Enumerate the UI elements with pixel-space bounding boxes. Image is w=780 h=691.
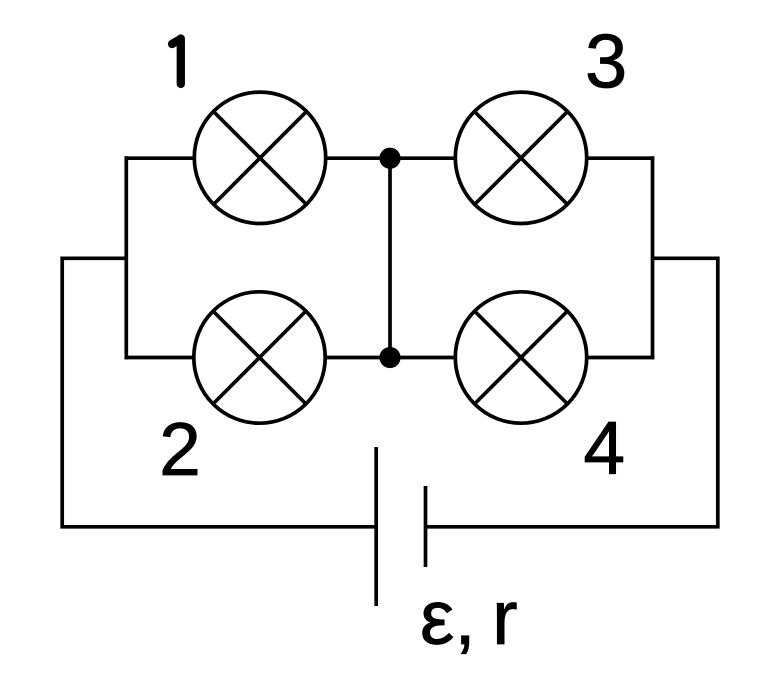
svg-text:4: 4 xyxy=(583,406,625,490)
svg-text:r: r xyxy=(492,575,518,661)
svg-text:3: 3 xyxy=(585,20,627,105)
svg-text:ε,: ε, xyxy=(420,575,476,661)
svg-text:2: 2 xyxy=(159,407,201,491)
